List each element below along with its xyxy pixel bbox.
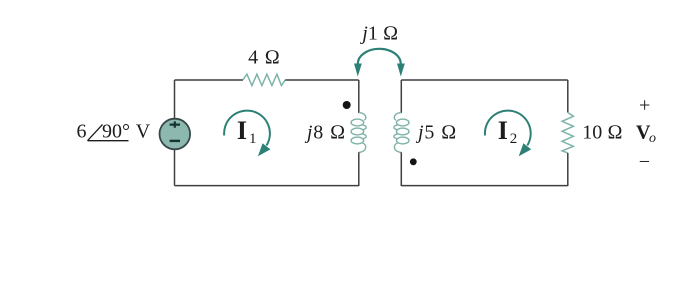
voltage source plus sign	[170, 121, 180, 127]
svg-text:j5 Ω: j5 Ω	[415, 122, 457, 144]
wire left-mesh bottom	[175, 185, 359, 187]
wire left-mesh right branch upper	[358, 80, 360, 113]
mutual coupling right arrowhead	[397, 64, 405, 77]
svg-text:−: −	[639, 151, 650, 173]
svg-text:2: 2	[510, 131, 518, 147]
dot marker secondary bottom	[410, 158, 417, 165]
svg-text:j1 Ω: j1 Ω	[359, 22, 398, 44]
svg-text:1: 1	[249, 131, 257, 147]
wire left-mesh left branch lower	[174, 150, 176, 186]
mesh current I2 arrowhead	[519, 143, 532, 156]
mesh current I2 loop arrow	[485, 111, 531, 146]
mutual coupling arc j1	[358, 49, 401, 64]
wire right-mesh bottom	[401, 185, 568, 187]
wire right-mesh top	[401, 79, 568, 81]
resistor R 4ohm zigzag	[243, 74, 285, 85]
wire left-mesh top segment left of resistor	[175, 79, 244, 81]
mutual coupling left arrowhead	[354, 64, 362, 77]
angle symbol lines	[88, 125, 129, 141]
svg-text:j8 Ω: j8 Ω	[304, 122, 346, 144]
wire left-mesh top segment right of resistor	[285, 79, 359, 81]
svg-text:V: V	[136, 121, 151, 143]
inductor L1 j8ohm coil	[351, 113, 366, 153]
wire right-mesh left branch upper	[400, 80, 402, 113]
resistor R 10ohm zigzag	[562, 112, 573, 152]
wire right-mesh left branch lower	[400, 152, 402, 186]
voltage source minus sign	[170, 140, 180, 142]
mesh current I1 arrowhead	[258, 143, 271, 156]
wire left-mesh right branch lower	[358, 152, 360, 186]
voltage source Vs circle	[160, 119, 191, 150]
svg-text:6: 6	[77, 121, 87, 143]
wire left-mesh left branch upper	[174, 80, 176, 119]
dot marker primary top	[343, 101, 351, 109]
svg-text:4 Ω: 4 Ω	[248, 47, 280, 69]
wire right-mesh right branch lower	[567, 153, 569, 186]
svg-text:o: o	[649, 131, 656, 146]
svg-text:90°: 90°	[102, 121, 130, 143]
svg-text:I: I	[498, 116, 508, 145]
mesh current I1 loop arrow	[224, 111, 270, 146]
wire right-mesh right branch upper	[567, 80, 569, 112]
svg-text:I: I	[237, 116, 247, 145]
svg-text:10 Ω: 10 Ω	[582, 122, 622, 144]
inductor L2 j5ohm coil	[394, 113, 409, 153]
svg-text:+: +	[639, 94, 650, 116]
